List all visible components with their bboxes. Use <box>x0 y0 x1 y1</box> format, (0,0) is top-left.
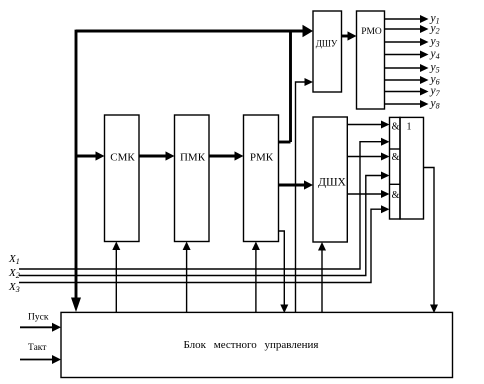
svg-text:Такт: Такт <box>28 343 47 353</box>
arrowhead y4 <box>420 51 429 59</box>
wire X1 to gate1 <box>19 142 386 269</box>
arrowhead gate3 in1 <box>381 190 390 198</box>
block RMO <box>357 11 385 109</box>
wire DShKh to gate3 <box>347 193 385 195</box>
control input labels <box>28 313 49 354</box>
block DShU <box>313 11 342 92</box>
arrowhead gate2 in1 <box>381 153 390 161</box>
arrowhead y7 <box>420 88 429 96</box>
wire RMO output y1 <box>385 18 425 20</box>
arrowhead gate1 in2 <box>381 138 390 146</box>
thick bus net <box>76 30 353 300</box>
arrowhead gate2 in2 <box>381 172 390 180</box>
wire RMO output y2 <box>385 28 425 30</box>
svg-text:РМК: РМК <box>250 152 274 164</box>
svg-text:ПМК: ПМК <box>180 152 206 164</box>
svg-text:&: & <box>392 122 400 133</box>
svg-text:&: & <box>392 152 400 163</box>
wire SMK to PMK <box>139 155 171 158</box>
arrowhead up into DShKh <box>318 242 326 251</box>
arrowhead into PMK <box>166 151 175 160</box>
arrowheads thick <box>71 25 357 312</box>
wire RMK aux to control unit <box>279 231 285 309</box>
arrowhead y2 <box>420 25 429 33</box>
wire DShU to RMO <box>342 35 354 38</box>
arrowhead into RMK <box>235 151 244 160</box>
svg-text:y8: y8 <box>430 98 440 111</box>
svg-text:Блок местного управления: Блок местного управления <box>184 339 319 351</box>
wire X3 to gate3 <box>19 209 386 282</box>
svg-text:y3: y3 <box>430 36 440 49</box>
svg-text:ДШХ: ДШХ <box>318 177 346 189</box>
wire Pusk input <box>20 326 57 328</box>
X input labels <box>8 253 20 294</box>
svg-text:y7: y7 <box>430 85 441 98</box>
svg-text:СМК: СМК <box>110 152 135 164</box>
svg-text:X3: X3 <box>8 281 20 294</box>
wire control unit to DShU aux input <box>296 82 310 313</box>
arrowhead up into PMK <box>183 242 191 251</box>
block DShKh <box>313 117 347 242</box>
wire X2 to gate2 <box>19 176 386 276</box>
gate column AND cells <box>390 117 401 219</box>
wire bus junction vertical at x290 <box>289 31 292 142</box>
wire Takt input <box>20 359 57 361</box>
wire RMO output y7 <box>385 91 425 93</box>
wire RMO output y5 <box>385 67 425 69</box>
thin wires <box>19 19 434 313</box>
arrowhead up into SMK <box>112 242 120 251</box>
arrowhead bus into DShU <box>303 25 314 37</box>
wire bus top horizontal <box>76 30 305 33</box>
arrowhead into DShKh <box>304 180 313 189</box>
gate divider 2 <box>390 183 401 185</box>
wire RMO output y3 <box>385 41 425 43</box>
arrowhead OR output down <box>430 305 438 314</box>
svg-text:ДШУ: ДШУ <box>316 39 338 49</box>
svg-text:X1: X1 <box>8 253 20 266</box>
wire PMK to RMK <box>209 155 240 158</box>
arrowhead bus down into control unit <box>71 298 81 313</box>
arrowhead Pusk <box>52 323 61 332</box>
wire control unit to PMK <box>186 246 188 313</box>
arrowhead gate3 in2 <box>381 205 390 213</box>
wire DShKh to gate1 <box>347 124 385 126</box>
wire RMO output y4 <box>385 54 425 56</box>
svg-text:y4: y4 <box>430 48 440 61</box>
input arrows Pusk / Takt <box>20 327 57 359</box>
wire control unit to DShKh <box>321 247 323 314</box>
arrowhead y6 <box>420 76 429 84</box>
block local control unit <box>61 312 453 377</box>
arrowhead y8 <box>420 100 429 108</box>
wire DShKh to gate2 <box>347 156 385 158</box>
wire RMK to DShKh <box>279 184 310 187</box>
arrowhead RMK aux down <box>280 305 288 314</box>
wire control unit to SMK <box>115 246 117 313</box>
wire bus junction horizontal to RMK <box>279 141 291 144</box>
svg-text:&: & <box>392 190 400 201</box>
svg-text:1: 1 <box>407 122 412 133</box>
wire control unit to RMK <box>255 246 257 313</box>
gate divider 1 <box>390 148 401 150</box>
wire RMO output y6 <box>385 79 425 81</box>
gate OR 1 <box>400 117 424 219</box>
wire RMO output y8 <box>385 103 425 105</box>
arrowhead y1 <box>420 15 429 23</box>
arrowhead DShU aux <box>305 78 314 86</box>
block SMK <box>105 115 140 242</box>
block PMK <box>175 115 210 242</box>
arrowhead into SMK <box>96 151 105 160</box>
svg-text:Пуск: Пуск <box>28 313 49 323</box>
arrowhead gate1 in1 <box>381 121 390 129</box>
arrowhead Takt <box>52 355 61 364</box>
wire bus left vertical <box>75 30 78 300</box>
wire OR output to control unit <box>424 168 435 310</box>
arrowhead DShU to RMO <box>348 31 357 40</box>
block RMK <box>244 115 279 242</box>
arrowhead y3 <box>420 38 429 46</box>
svg-text:РМО: РМО <box>361 27 382 37</box>
arrowhead up into RMK <box>252 242 260 251</box>
wire bus branch to SMK <box>76 155 101 158</box>
arrowhead y5 <box>420 64 429 72</box>
svg-text:X2: X2 <box>8 267 20 280</box>
output labels <box>430 13 441 111</box>
thin arrowheads <box>52 15 438 364</box>
